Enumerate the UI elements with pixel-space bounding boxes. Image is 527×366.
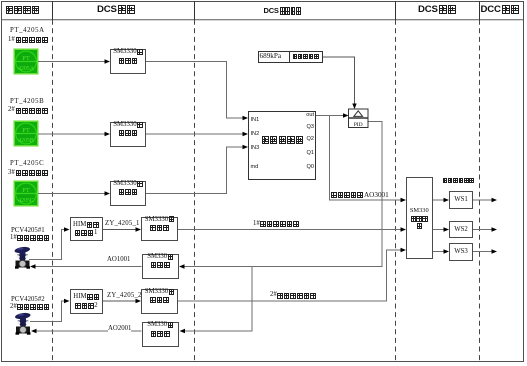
transmitter PT_4205A icon — [14, 49, 39, 75]
label 1#压力变送器 — [8, 37, 49, 44]
header column tick 3 — [395, 1, 397, 20]
label 压力选择器 — [262, 136, 304, 152]
header column tick 4 — [479, 1, 481, 20]
pin Q2 — [304, 136, 314, 142]
label AO1001 — [107, 257, 130, 264]
label 2#阀门定位器 — [10, 304, 49, 311]
setpoint label 压力设定值 — [293, 54, 319, 70]
setpoint inner divider — [289, 51, 290, 64]
column header DCS控制功能 — [264, 7, 302, 15]
pin IN1 — [251, 117, 260, 123]
terminal module SM3330 box 2 — [110, 122, 146, 147]
label 选择后压力AO3001 — [331, 192, 389, 199]
label 3#压力变送器 — [8, 170, 49, 177]
label AO2001 — [108, 326, 131, 333]
SM330 box text line 3 — [417, 223, 422, 239]
wire WS3 to DCC system — [473, 249, 497, 253]
wire AO branch junction to AO2001 — [180, 267, 253, 334]
wire SM330 module to WS2 — [433, 227, 450, 231]
terminal module SM3330 box 1 — [110, 49, 146, 74]
label ZY_4205_1 — [105, 221, 140, 228]
wire selected pressure AO3001 to SM330 module — [330, 116, 407, 203]
dashed column divider 2 — [194, 20, 196, 362]
label PT_4205A — [10, 28, 45, 35]
column header DCS机柜 (cabinet 1) — [97, 5, 136, 15]
svg-text:4205A: 4205A — [18, 66, 35, 72]
wire HIM converter 1 to terminal module ZY_4205_1 — [103, 227, 142, 231]
wire terminal module 3 to selector IN3 — [146, 145, 248, 194]
pin IN2 — [251, 131, 260, 137]
terminal module SM3330 box (feedback 2) — [141, 289, 178, 314]
workstation WS3 box — [449, 243, 473, 261]
pin Q3 — [304, 124, 314, 130]
terminal module SM3330 box (feedback 1) — [141, 217, 178, 242]
terminal module SM330 box (AO1001) — [142, 254, 180, 279]
wire terminal module 1 to selector IN1 — [146, 62, 248, 121]
PID block — [349, 109, 369, 128]
label 1#阀位反馈信号 — [253, 221, 299, 228]
wire terminal module 2 to selector IN2 — [146, 132, 248, 136]
SM330 box text line 1 — [406, 208, 433, 214]
wire PT_4205C to terminal module 3 — [38, 191, 110, 195]
setpoint box 689kPa 压力设定值 — [258, 51, 324, 64]
terminal module SM3330 box 3 — [110, 181, 146, 206]
wire WS2 to DCC system — [473, 227, 497, 231]
label 2#阀位反馈信号 — [270, 292, 316, 299]
label PT_4205C — [10, 161, 44, 168]
label 2#压力变送器 — [8, 107, 49, 114]
svg-text:4205C: 4205C — [18, 198, 34, 204]
column header DCC系统 — [481, 5, 520, 15]
wire valve 2 position feedback to SM330 module — [178, 248, 406, 301]
pin out — [304, 112, 314, 118]
pin md — [251, 164, 259, 170]
svg-text:PT: PT — [22, 127, 30, 134]
terminal module SM330 box (AO2001) — [142, 322, 180, 347]
header column tick 1 — [52, 1, 54, 20]
wire valve 2 feedback to HIM converter 2 — [30, 299, 70, 322]
label ZY_4205_2 — [107, 293, 142, 300]
HIM signal converter 1 box — [70, 217, 103, 241]
header column tick 2 — [194, 1, 196, 20]
wire HIM converter 2 to terminal module ZY_4205_2 — [103, 299, 141, 303]
label 1#阀门定位器 — [10, 235, 49, 242]
svg-text:PT: PT — [22, 55, 30, 62]
wire PT_4205B to terminal module 2 — [38, 132, 110, 136]
svg-text:PID: PID — [354, 122, 363, 128]
wire AO2001 to valve 2 — [31, 329, 142, 333]
SM330 box text line 2 — [411, 215, 428, 231]
HIM signal converter 2 box — [70, 289, 104, 314]
transmitter PT_4205B icon — [14, 121, 39, 147]
pin IN3 — [251, 145, 260, 151]
label PCV4205#2 — [11, 297, 45, 304]
wire setpoint to PID — [323, 57, 357, 109]
wire SM330 module to WS3 — [433, 249, 450, 253]
dashed column divider 4 — [479, 20, 481, 362]
wire valve 1 feedback to HIM converter 1 — [29, 227, 70, 259]
column header 现场仪表 — [6, 5, 41, 21]
setpoint value 689kPa — [260, 53, 282, 60]
valve positioner PCV4205#2 icon — [15, 312, 31, 335]
wire PID output down — [179, 122, 382, 269]
label PT_4205B — [10, 99, 44, 106]
valve positioner PCV4205#1 icon — [14, 246, 30, 269]
dashed column divider 3 — [395, 20, 397, 362]
pin Q0 — [304, 164, 314, 170]
wire PT_4205A to terminal module 1 — [38, 59, 110, 63]
column header DCS机柜 (cabinet 2) — [418, 5, 457, 15]
svg-text:4205B: 4205B — [18, 138, 34, 144]
wire SM330 module to WS1 — [433, 198, 450, 202]
transmitter PT_4205C icon — [14, 181, 39, 207]
label 信号隔离端子 — [443, 177, 475, 193]
workstation WS2 box — [449, 221, 473, 239]
wire valve 1 position feedback to SM330 module — [178, 227, 406, 231]
pin Q1 — [304, 150, 314, 156]
pressure selector block — [248, 111, 316, 180]
svg-text:PT: PT — [22, 187, 30, 194]
dashed column divider 1 — [52, 20, 54, 362]
label PCV4205#1 — [11, 228, 45, 235]
header underline — [1, 19, 524, 21]
wire WS1 to DCC system — [473, 198, 497, 202]
workstation WS1 box — [449, 191, 473, 209]
SM330 terminal module box (DCS cabinet 2) — [406, 177, 433, 259]
wire AO1001 to valve 1 — [30, 264, 142, 268]
wire selector out to PID input — [316, 113, 349, 117]
